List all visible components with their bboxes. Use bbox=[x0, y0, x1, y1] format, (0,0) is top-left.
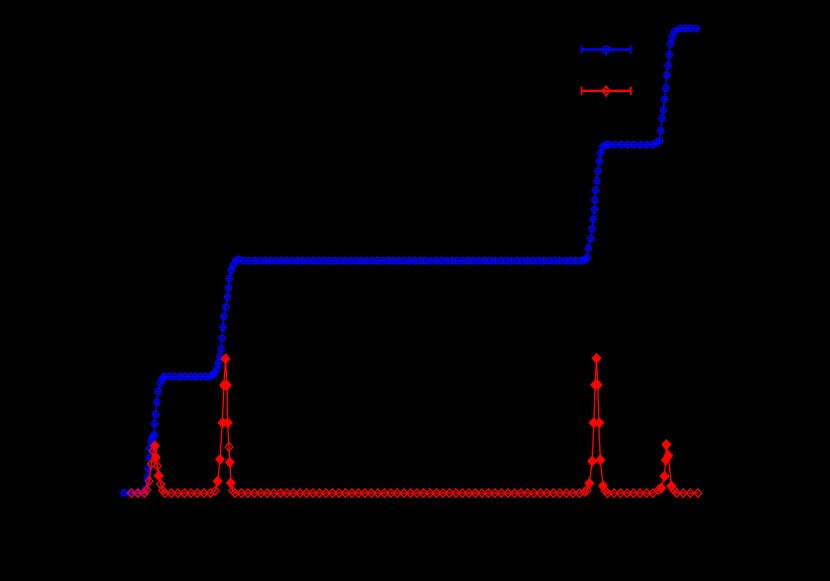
blue series error bars bbox=[121, 24, 700, 497]
legend blue errorbar sample bbox=[582, 45, 631, 55]
blue series circle markers bbox=[121, 25, 699, 496]
red spike filled diamonds bbox=[151, 353, 676, 493]
red series diamond markers bbox=[128, 354, 702, 497]
red series line bbox=[131, 358, 698, 493]
blue series line bbox=[124, 28, 696, 493]
legend red errorbar sample bbox=[582, 86, 631, 97]
